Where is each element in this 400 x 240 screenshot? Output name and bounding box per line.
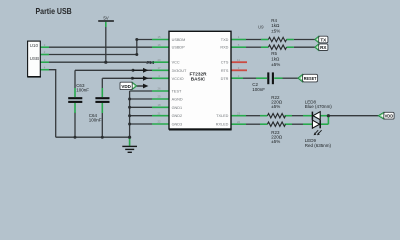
svg-text:11: 11 [237, 58, 240, 62]
svg-text:100nF: 100nF [76, 88, 89, 93]
svg-text:RXD: RXD [220, 46, 228, 50]
svg-text:VDD: VDD [121, 84, 131, 89]
svg-text:15: 15 [157, 35, 161, 39]
svg-text:±5%: ±5% [271, 29, 280, 34]
svg-text:23: 23 [237, 111, 241, 115]
svg-text:VDD: VDD [385, 114, 394, 119]
svg-text:VCC: VCC [172, 61, 180, 65]
svg-text:Blue (470nm): Blue (470nm) [305, 104, 333, 109]
svg-text:22: 22 [237, 120, 241, 124]
svg-text:21: 21 [157, 111, 161, 115]
svg-text:RX: RX [320, 45, 327, 50]
svg-text:GND3: GND3 [172, 123, 183, 127]
svg-text:22: 22 [157, 120, 161, 124]
svg-text:1kΩ: 1kΩ [271, 23, 280, 28]
svg-text:DTR: DTR [221, 77, 229, 81]
svg-text:U9: U9 [258, 25, 264, 30]
svg-text:±5%: ±5% [271, 104, 280, 109]
svg-text:3V3OUT: 3V3OUT [172, 69, 187, 73]
svg-text:USB: USB [30, 56, 39, 61]
svg-text:20: 20 [157, 58, 161, 62]
svg-text:TEST: TEST [172, 90, 182, 94]
svg-text:TXD: TXD [221, 38, 229, 42]
svg-text:GND2: GND2 [172, 114, 183, 118]
svg-text:5V: 5V [103, 15, 108, 20]
svg-text:R5: R5 [271, 51, 277, 56]
svg-text:CTS: CTS [221, 61, 229, 65]
svg-text:USBDP: USBDP [172, 46, 186, 50]
svg-text:100nF: 100nF [252, 87, 265, 92]
svg-text:±5%: ±5% [271, 139, 280, 144]
svg-text:U10: U10 [30, 43, 39, 48]
svg-text:16: 16 [157, 43, 161, 47]
svg-text:26: 26 [157, 87, 161, 91]
svg-text:TX: TX [320, 37, 327, 42]
svg-text:GND1: GND1 [172, 106, 183, 110]
svg-text:18: 18 [157, 103, 161, 107]
svg-text:25: 25 [157, 95, 161, 99]
svg-text:J14: J14 [146, 60, 154, 65]
svg-text:TXLED: TXLED [216, 114, 228, 118]
svg-text:AGND: AGND [172, 98, 183, 102]
svg-text:Red (635nm): Red (635nm) [305, 143, 332, 148]
svg-text:1kΩ: 1kΩ [271, 57, 280, 62]
svg-text:Partie USB: Partie USB [36, 6, 72, 16]
svg-text:BASIC: BASIC [191, 77, 206, 82]
svg-text:R4: R4 [271, 18, 277, 23]
svg-text:VCCIO: VCCIO [172, 77, 184, 81]
svg-text:100nF: 100nF [89, 117, 102, 122]
svg-text:USBDM: USBDM [172, 38, 186, 42]
svg-text:17: 17 [157, 66, 161, 70]
svg-text:RTS: RTS [221, 69, 229, 73]
svg-text:FT232R: FT232R [190, 71, 208, 76]
svg-text:±5%: ±5% [271, 62, 280, 67]
svg-text:RESET: RESET [304, 76, 317, 81]
svg-text:RXLED: RXLED [216, 123, 229, 127]
